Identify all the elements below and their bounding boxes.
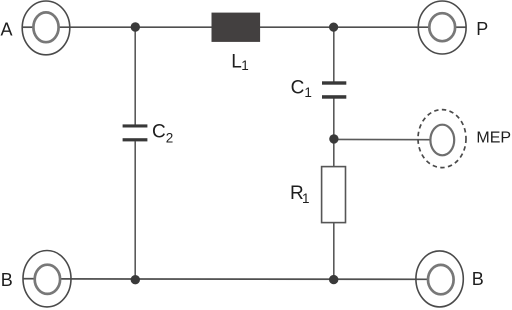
svg-text:1: 1 [241,58,249,73]
svg-text:B: B [472,269,484,289]
junction top-left [131,22,140,31]
label C2 [152,122,173,146]
resistor R1 [322,167,346,223]
label R1 [290,183,310,206]
terminal P [418,1,466,54]
wire right vertical lower [333,223,335,280]
svg-text:1: 1 [304,85,312,100]
label C1 [291,77,312,100]
junction MEP node [329,134,338,143]
wire top: L1 to P [260,26,466,28]
terminal B right [416,251,463,307]
junction top-right [329,23,338,32]
wire left vertical lower [134,141,136,279]
label L1 [231,52,249,74]
svg-text:P: P [476,19,488,39]
wire MEP branch [334,138,431,140]
svg-text:B: B [1,270,13,290]
svg-text:1: 1 [302,191,310,206]
capacitor C2 [123,124,148,141]
svg-text:C: C [291,77,305,98]
wire right vertical middle [333,99,335,167]
terminal MEP (dashed) [418,110,466,168]
wire left vertical upper [134,27,136,124]
svg-text:L: L [231,52,242,73]
capacitor C1 [322,81,346,98]
wire bottom: B to B [23,278,428,281]
svg-text:2: 2 [166,130,174,145]
junction bottom-left [131,275,140,284]
junction bottom-right [329,275,338,284]
terminal A [22,1,70,55]
wire right vertical upper [333,27,335,81]
svg-text:C: C [152,122,166,143]
terminal B left [23,251,71,307]
inductor L1 [212,13,261,42]
svg-text:A: A [1,19,13,39]
svg-text:MEP: MEP [476,129,511,146]
wire top: A to junction to L1 [22,26,211,28]
